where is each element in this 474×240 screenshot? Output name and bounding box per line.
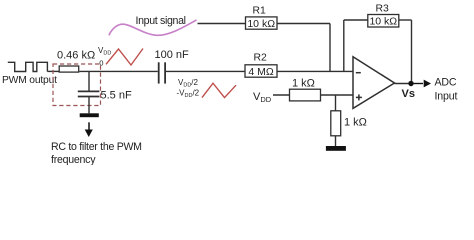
capacitor 100 nF: [158, 62, 160, 83]
svg-text:PWM output: PWM output: [2, 75, 57, 86]
pin minus: [356, 72, 361, 74]
annotation arrow to caption: [88, 122, 90, 130]
arrow to ADC: [414, 83, 423, 85]
wire input signal to R1: [198, 23, 246, 25]
capacitor 5.5 nF: [78, 90, 100, 92]
op-amp U1: [353, 57, 395, 109]
svg-text:Vs: Vs: [402, 88, 415, 100]
svg-text:R2: R2: [254, 53, 268, 64]
wire 100nF to R2: [166, 70, 245, 72]
resistor 1 kOhm (vertical): [331, 111, 341, 136]
ground (filter): [80, 113, 99, 117]
svg-text:1 kΩ: 1 kΩ: [344, 117, 367, 129]
svg-text:4 MΩ: 4 MΩ: [248, 66, 274, 78]
wire PWM to filter resistor: [47, 70, 59, 72]
wire filter node down to capacitor: [88, 71, 90, 91]
svg-text:Input signal: Input signal: [136, 15, 187, 27]
svg-text:10 kΩ: 10 kΩ: [247, 18, 275, 30]
wire R1 to inverting node: [277, 23, 330, 25]
svg-text:0: 0: [99, 58, 103, 67]
svg-text:0.46 kΩ: 0.46 kΩ: [57, 49, 95, 61]
input signal curve: [109, 20, 197, 35]
svg-text:5.5 nF: 5.5 nF: [101, 90, 132, 102]
resistor 0.46 kOhm: [59, 66, 78, 72]
svg-text:R1: R1: [253, 6, 267, 17]
resistor R3: [368, 15, 399, 28]
wire R2 to op-amp inverting input: [277, 70, 353, 72]
RC filter dashed box: [53, 64, 101, 106]
ground (divider): [326, 146, 346, 151]
wire R3 left to inverting node: [344, 19, 368, 21]
wire op-amp output to node: [395, 83, 415, 85]
resistor R1: [246, 17, 278, 29]
wire R3 right to output node: [399, 19, 412, 21]
resistor 1 kOhm (horizontal): [290, 89, 321, 101]
waveform annotation +/-VDD/2 (AC coupled): [202, 83, 236, 97]
svg-text:1 kΩ: 1 kΩ: [292, 78, 315, 90]
wire divider resistor to ground: [335, 136, 337, 146]
svg-text:Input: Input: [435, 91, 458, 103]
wire VDD to 1 kOhm: [273, 94, 290, 96]
resistor R2: [245, 65, 277, 77]
wire 1 kOhm to non-inverting input: [321, 94, 354, 96]
svg-text:100 nF: 100 nF: [155, 49, 190, 61]
svg-text:frequency: frequency: [51, 154, 96, 165]
wire resistor to filter node: [80, 70, 158, 72]
pin plus: [356, 96, 362, 98]
wire junction down to divider resistor: [335, 95, 337, 111]
wire capacitor to ground: [88, 97, 90, 114]
PWM square wave symbol: [8, 62, 48, 71]
node Vs (junction dot): [408, 81, 413, 86]
svg-text:ADC: ADC: [435, 77, 457, 89]
svg-text:RC to filter the PWM: RC to filter the PWM: [51, 141, 142, 153]
waveform annotation VDD/0 (filtered PWM): [106, 49, 143, 66]
svg-text:10 kΩ: 10 kΩ: [369, 16, 397, 28]
svg-text:R3: R3: [376, 4, 390, 15]
